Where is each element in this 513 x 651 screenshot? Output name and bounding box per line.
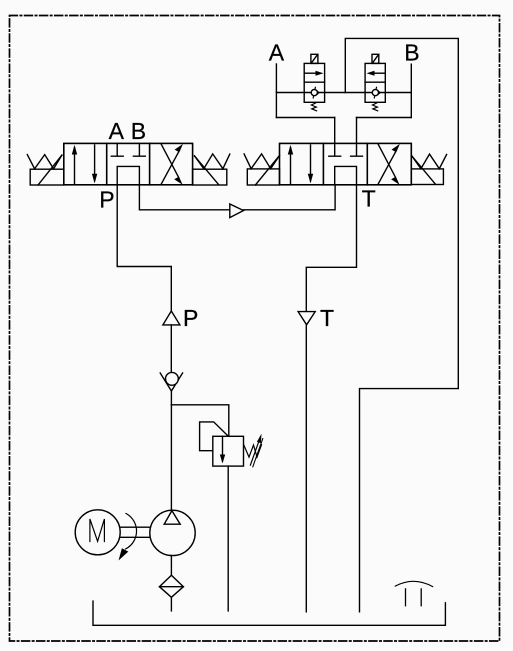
svg-text:A: A (269, 39, 285, 65)
svg-text:T: T (320, 305, 334, 331)
svg-text:B: B (131, 118, 146, 144)
svg-text:P: P (183, 305, 198, 331)
svg-text:T: T (362, 186, 376, 212)
svg-text:B: B (404, 40, 419, 66)
svg-text:A: A (109, 118, 125, 144)
svg-text:P: P (99, 186, 114, 212)
